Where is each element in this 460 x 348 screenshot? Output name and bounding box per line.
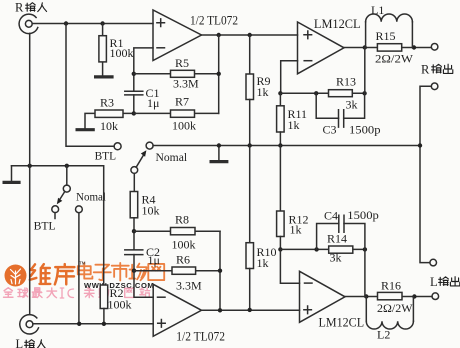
svg-text:3k: 3k	[330, 251, 342, 265]
node left rail / switch S1b	[65, 164, 69, 168]
node R6 right junction	[218, 269, 222, 273]
svg-text:R3: R3	[100, 95, 114, 109]
svg-text:Nomal: Nomal	[156, 152, 188, 164]
node input-R1 junction	[100, 21, 104, 25]
wire U3 output row	[345, 296, 432, 298]
wire U2 output row	[344, 47, 431, 49]
wire U2 inverting input down to R11	[281, 61, 298, 94]
svg-text:1k: 1k	[290, 223, 302, 237]
wire U1b output row to U3	[202, 231, 300, 310]
node C1/R3/R7 junction	[132, 111, 136, 115]
node R14 right / C4 branch	[363, 247, 367, 251]
label L输入	[16, 337, 46, 348]
svg-text:100k: 100k	[108, 297, 132, 311]
resistor R14	[280, 232, 365, 265]
svg-text:LM12CL: LM12CL	[314, 16, 361, 31]
capacitor C2	[125, 245, 160, 271]
svg-text:1/2 TL072: 1/2 TL072	[176, 328, 225, 343]
switch S1b pivot and arm	[57, 166, 71, 205]
op-amp U3 LM12CL (lower)	[300, 271, 365, 329]
svg-text:2Ω/2W: 2Ω/2W	[377, 301, 413, 315]
node input-BTL junction	[64, 21, 68, 25]
connector J3 R output signal jack	[431, 44, 438, 51]
svg-text:Nomal: Nomal	[76, 192, 106, 204]
switch S1b BTL contact	[52, 206, 59, 219]
wire C2 node down to U1b inverting input	[134, 271, 153, 298]
ground rail middle (y=145.4)	[153, 145, 420, 147]
node U1b output junction	[218, 308, 222, 312]
svg-text:R14: R14	[327, 232, 347, 246]
ground symbol on rail	[210, 143, 229, 161]
resistor R3	[85, 95, 134, 133]
op-amp U2 LM12CL (upper)	[298, 16, 361, 74]
svg-text:R6: R6	[176, 253, 190, 267]
svg-text:3k: 3k	[346, 98, 358, 112]
wire L input row	[33, 323, 153, 325]
svg-text:1μ: 1μ	[148, 253, 160, 267]
node feedback/R5 junction	[132, 72, 136, 76]
wire jack shell column (R in to L in)	[29, 33, 31, 314]
ground below R1	[94, 75, 114, 78]
ground below R3	[76, 128, 95, 131]
wire BTL column	[66, 24, 114, 147]
node R4/R8/C2 junction	[132, 229, 136, 233]
resistor R13	[280, 75, 364, 112]
wire U3 feedback column	[364, 249, 366, 296]
svg-text:3.3M: 3.3M	[173, 76, 199, 90]
svg-text:R: R	[15, 0, 24, 14]
resistor R2	[100, 285, 131, 324]
svg-text:R7: R7	[175, 95, 189, 109]
connector J3 R output ground jack	[431, 83, 438, 90]
node output/R9 junction	[248, 33, 252, 37]
resistor R1	[99, 24, 134, 76]
switch S1a BTL contact	[114, 143, 121, 150]
svg-text:C4: C4	[324, 208, 338, 222]
node U3 plus input / R10 junction	[248, 308, 252, 312]
svg-text:BTL: BTL	[95, 149, 117, 163]
svg-text:R16: R16	[381, 279, 401, 293]
svg-text:100k: 100k	[110, 46, 134, 60]
svg-text:R15: R15	[376, 29, 396, 43]
resistor R6	[134, 253, 220, 293]
wire U1a output row to U2	[202, 34, 298, 36]
resistor R4	[130, 192, 159, 250]
svg-text:3.3M: 3.3M	[176, 278, 202, 292]
wire R12 node down to U3 inverting input	[280, 249, 299, 283]
svg-text:L: L	[16, 337, 24, 348]
svg-text:1k: 1k	[257, 256, 269, 270]
svg-text:R8: R8	[175, 213, 189, 227]
svg-text:R: R	[421, 62, 430, 76]
capacitor C1	[125, 86, 160, 114]
inductor L1	[366, 3, 413, 48]
label L输出	[430, 275, 460, 289]
node R11/R12 on ground rail	[278, 143, 282, 147]
resistor R9	[246, 35, 271, 146]
node output/L1 right junction	[412, 45, 416, 49]
wire R output ground to rail	[420, 86, 431, 262]
svg-text:1500p: 1500p	[349, 123, 381, 137]
svg-text:1/2 TL072: 1/2 TL072	[190, 13, 238, 28]
node R14 left / C4 branch	[314, 247, 318, 251]
ground symbol left	[3, 166, 21, 183]
svg-text:R13: R13	[336, 75, 356, 89]
node C2/R6 junction	[132, 269, 136, 273]
node L input / Nomal column junction	[77, 322, 81, 326]
svg-text:C3: C3	[323, 123, 337, 137]
svg-text:TM: TM	[79, 261, 86, 266]
node L input / R2 junction	[102, 322, 106, 326]
svg-text:LM12CL: LM12CL	[319, 314, 365, 329]
watermark logo circle (dzsc)	[5, 265, 27, 287]
node output/L2 left junction	[364, 294, 368, 298]
wire feedback column R5/R7 right	[218, 35, 220, 113]
watermark slogan 全球最大IC采购网站 (pink)	[4, 288, 150, 298]
op-amp U1a 1/2 TL072	[153, 10, 238, 61]
switch S1a pivot and arm	[131, 150, 146, 191]
svg-text:L: L	[430, 275, 438, 289]
node R13 left / C3 branch	[314, 91, 318, 95]
capacitor C3	[316, 93, 380, 136]
watermark text 电子市场网 (orange)	[78, 263, 164, 281]
label R输出	[421, 62, 453, 76]
watermark text 维库 (orange, bold)	[30, 264, 75, 284]
label R输入	[15, 0, 47, 14]
svg-text:L2: L2	[377, 328, 390, 342]
wire U2 output down to R13/C3	[364, 48, 366, 94]
node R13 right / C3 branch	[362, 91, 366, 95]
resistor R7	[134, 95, 219, 133]
svg-text:100k: 100k	[172, 237, 196, 251]
resistor R8	[134, 213, 220, 252]
connector J2 L input jack	[20, 315, 39, 334]
node R11 top junction	[278, 91, 282, 95]
node output/feedback column junction	[217, 33, 221, 37]
resistor R11	[277, 93, 307, 145]
connector J4 L output signal jack	[432, 293, 439, 300]
svg-text:1μ: 1μ	[147, 96, 159, 110]
svg-text:1k: 1k	[257, 85, 269, 99]
svg-text:10k: 10k	[100, 119, 118, 133]
connector J4 L output ground jack	[430, 259, 437, 266]
resistor R12	[277, 146, 309, 250]
resistor R15	[375, 29, 414, 65]
svg-text:2Ω/2W: 2Ω/2W	[375, 51, 414, 65]
node output/L1 left junction	[363, 45, 367, 49]
connector J1 R input jack	[19, 14, 38, 33]
inductor L2	[366, 297, 413, 342]
switch S1b Nomal contact	[76, 206, 83, 324]
resistor R5	[134, 56, 219, 90]
node output/L2 right junction	[412, 294, 416, 298]
svg-text:BTL: BTL	[34, 218, 56, 232]
node R9/R10 on ground rail	[248, 143, 252, 147]
op-amp U1b 1/2 TL072	[153, 284, 225, 343]
svg-text:10k: 10k	[142, 204, 160, 218]
svg-text:100k: 100k	[172, 119, 196, 133]
left ground rail row	[12, 166, 104, 285]
node R12 bottom junction	[278, 247, 282, 251]
svg-text:L1: L1	[371, 3, 384, 17]
capacitor C4	[317, 208, 379, 249]
node output ground rail junction	[418, 143, 422, 147]
svg-text:R5: R5	[175, 56, 189, 70]
node left rail / jack shell column	[28, 164, 32, 168]
resistor R10	[246, 146, 277, 310]
wire R input row	[32, 23, 153, 25]
resistor R16	[377, 279, 413, 315]
switch S1a Nomal contact	[146, 142, 153, 149]
svg-text:1k: 1k	[288, 118, 300, 132]
node R5 right junction	[217, 72, 221, 76]
svg-text:1500p: 1500p	[347, 208, 379, 222]
wire U1a inverting input to feedback column	[134, 48, 153, 91]
